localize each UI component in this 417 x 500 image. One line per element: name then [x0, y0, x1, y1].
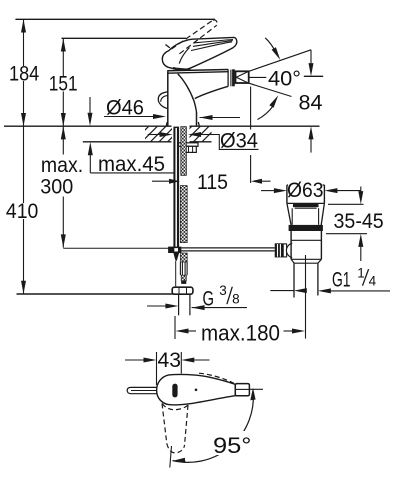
svg-text:G: G: [203, 288, 215, 311]
svg-text:max.45: max.45: [98, 153, 165, 176]
svg-text:115: 115: [197, 171, 228, 194]
svg-text:8: 8: [232, 292, 240, 307]
svg-text:151: 151: [49, 73, 78, 96]
svg-text:43: 43: [158, 349, 182, 372]
svg-text:Ø46: Ø46: [106, 97, 144, 120]
svg-text:84: 84: [299, 92, 323, 115]
svg-text:35-45: 35-45: [334, 210, 384, 233]
svg-text:3: 3: [219, 283, 227, 298]
svg-text:40°: 40°: [268, 67, 301, 90]
svg-text:Ø63: Ø63: [287, 179, 324, 202]
svg-text:184: 184: [9, 63, 39, 86]
svg-text:Ø34: Ø34: [220, 130, 258, 153]
svg-text:300: 300: [40, 176, 73, 199]
svg-text:1: 1: [357, 265, 365, 280]
svg-text:4: 4: [369, 274, 377, 289]
svg-text:95°: 95°: [213, 433, 252, 458]
svg-text:410: 410: [6, 200, 38, 223]
svg-text:max.: max.: [41, 154, 83, 177]
svg-text:G1: G1: [332, 269, 351, 292]
svg-text:max.180: max.180: [201, 320, 280, 345]
